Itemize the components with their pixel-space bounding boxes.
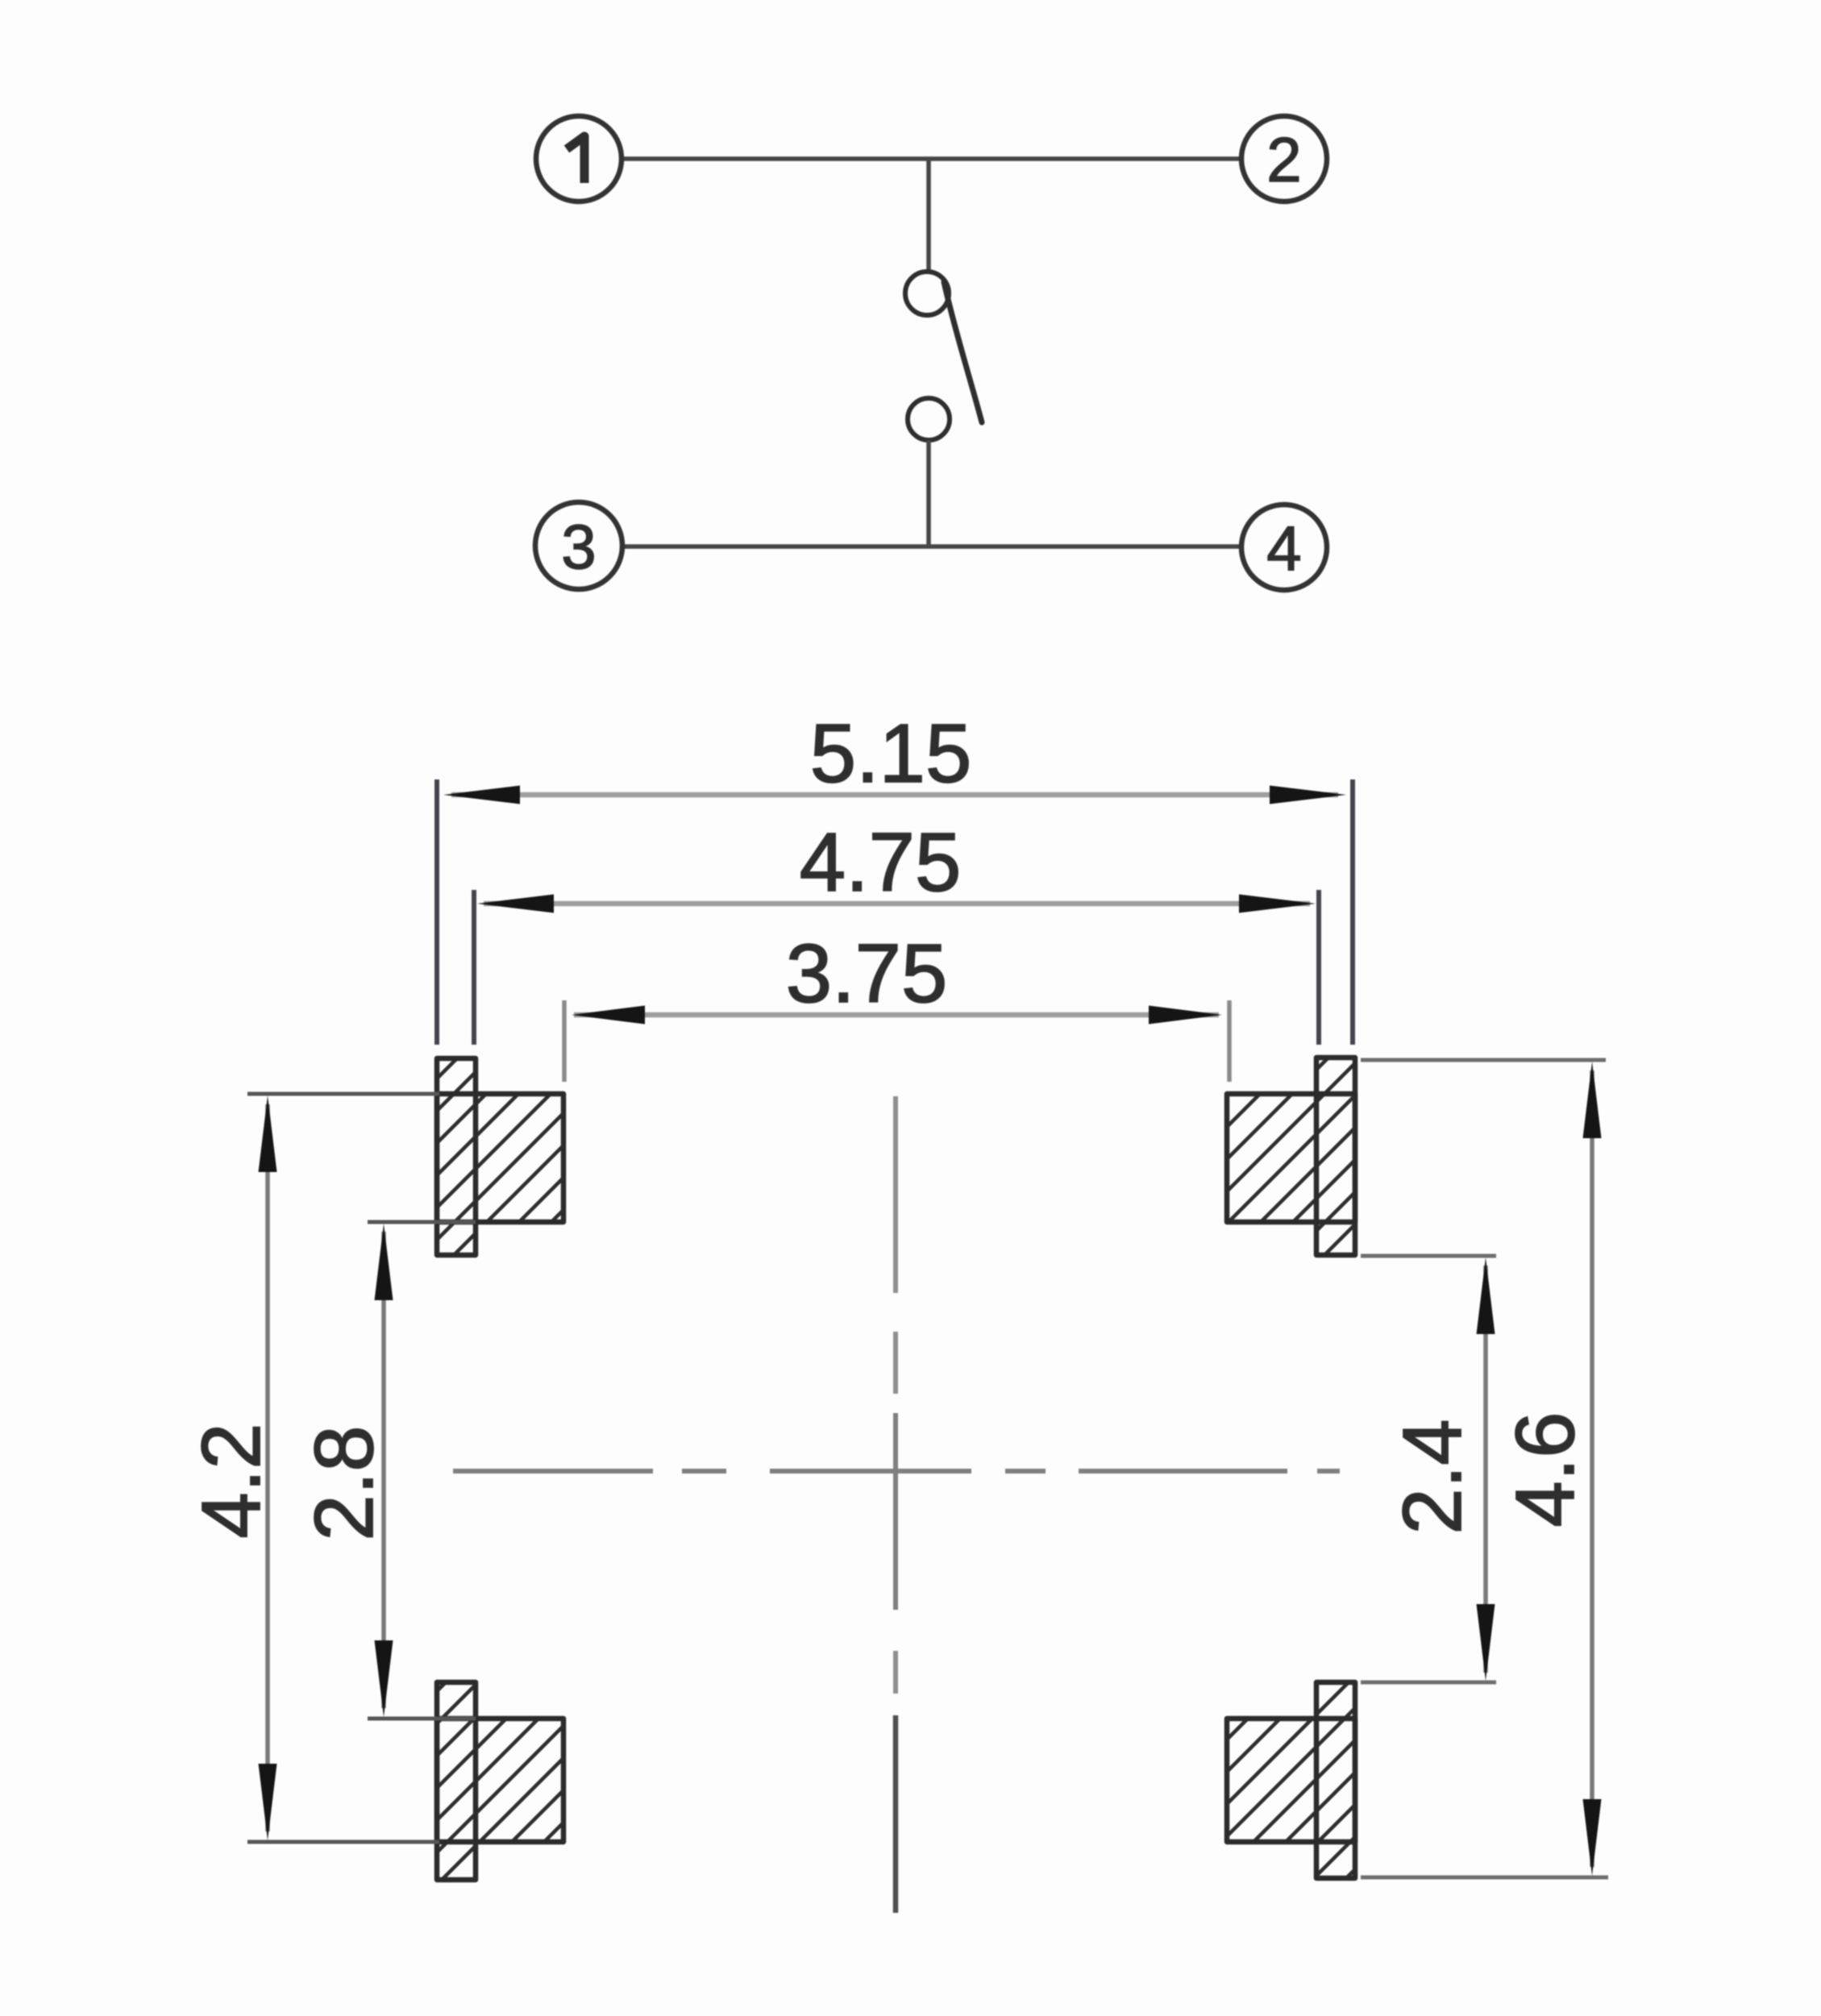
svg-text:2.4: 2.4 xyxy=(1386,1419,1478,1534)
wire junction to upper contact xyxy=(926,159,931,271)
terminal 4 xyxy=(1241,505,1327,590)
pad P1 top-left xyxy=(437,1058,563,1255)
wire 3-4 xyxy=(622,544,1241,549)
svg-text:2: 2 xyxy=(1266,124,1301,195)
svg-text:3: 3 xyxy=(561,511,596,582)
terminal 2 xyxy=(1241,116,1327,202)
terminal 1 xyxy=(536,116,622,202)
svg-text:4.2: 4.2 xyxy=(185,1423,277,1538)
terminal 3 xyxy=(535,502,622,589)
wire 1-2 xyxy=(622,156,1241,161)
svg-text:4: 4 xyxy=(1266,513,1301,584)
wire lower contact to 3-4 xyxy=(926,440,931,547)
pad P2 top-right xyxy=(1227,1058,1355,1255)
svg-text:4.75: 4.75 xyxy=(800,816,961,908)
dimension 5.15 xyxy=(437,707,1353,1045)
switch lever xyxy=(944,282,982,422)
pad P3 bottom-left xyxy=(437,1682,563,1880)
svg-text:3.75: 3.75 xyxy=(786,927,947,1020)
dimension 2.4 xyxy=(1361,1256,1496,1682)
svg-text:2.8: 2.8 xyxy=(297,1425,390,1540)
dimension 4.6 xyxy=(1361,1060,1608,1877)
upper contact xyxy=(905,272,949,315)
center line vertical xyxy=(893,1096,898,1913)
dimension 3.75 xyxy=(564,927,1229,1082)
lower contact xyxy=(908,398,950,440)
dimension 4.2 xyxy=(185,1094,439,1842)
dimension 2.8 xyxy=(297,1222,476,1719)
pad P4 bottom-right xyxy=(1227,1682,1355,1878)
svg-text:5.15: 5.15 xyxy=(810,707,971,800)
center line horizontal xyxy=(453,1469,1340,1474)
dimension 4.75 xyxy=(474,816,1319,1045)
svg-text:4.6: 4.6 xyxy=(1499,1411,1591,1527)
